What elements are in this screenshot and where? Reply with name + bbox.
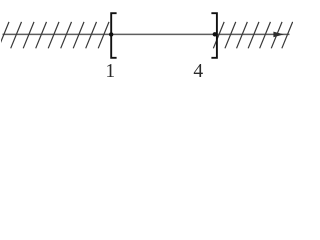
svg-text:1: 1	[105, 61, 115, 82]
svg-text:4: 4	[193, 61, 203, 82]
